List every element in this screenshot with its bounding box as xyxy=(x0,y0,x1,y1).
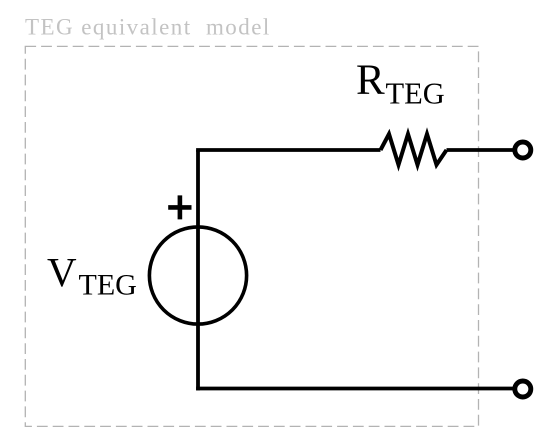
svg-text:TEG: TEG xyxy=(386,76,445,110)
dashed boundary box xyxy=(25,46,478,426)
svg-text:R: R xyxy=(356,57,385,104)
svg-text:V: V xyxy=(47,249,77,295)
wire: top horizontal, node corner to resistor xyxy=(198,148,381,150)
voltage source V_TEG xyxy=(149,227,246,324)
svg-text:TEG: TEG xyxy=(79,269,137,302)
terminal: top output xyxy=(515,142,531,158)
plus polarity mark xyxy=(168,195,191,219)
resistor R_TEG xyxy=(381,134,447,165)
wire: bottom horizontal xyxy=(196,387,513,391)
svg-text:TEG equivalent model: TEG equivalent model xyxy=(25,15,271,40)
wire: resistor to top terminal xyxy=(447,148,514,152)
terminal: bottom output xyxy=(515,381,531,397)
wire: vertical through source xyxy=(196,150,200,390)
